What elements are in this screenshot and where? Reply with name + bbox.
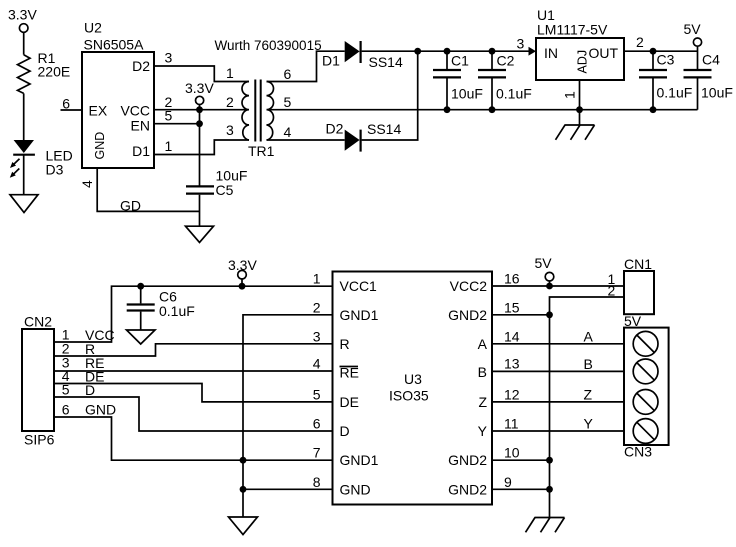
svg-text:B: B	[478, 364, 487, 380]
svg-text:1: 1	[313, 271, 321, 287]
svg-text:IN: IN	[544, 45, 558, 61]
svg-text:GD: GD	[120, 198, 141, 214]
svg-text:D1: D1	[132, 143, 150, 159]
svg-text:OUT: OUT	[589, 45, 619, 61]
svg-text:C1: C1	[451, 53, 469, 69]
svg-text:5V: 5V	[624, 313, 642, 329]
wire U2 pin6 EX stub	[61, 109, 83, 111]
transformer TR1	[215, 38, 322, 159]
svg-text:0.1uF: 0.1uF	[159, 303, 195, 319]
wire U3 pin7 GND1	[243, 459, 333, 461]
junction	[546, 486, 553, 493]
svg-text:GND: GND	[340, 481, 371, 497]
node 5V (bottom)	[535, 255, 554, 286]
svg-text:6: 6	[62, 96, 70, 112]
capacitor C6	[127, 286, 195, 330]
junction	[546, 283, 553, 290]
junction	[240, 457, 247, 464]
wire secondary return rail (TR1 pin5)	[267, 109, 698, 111]
svg-text:VCC1: VCC1	[340, 278, 378, 294]
svg-text:10: 10	[504, 445, 520, 461]
svg-text:C3: C3	[657, 52, 675, 68]
svg-text:3: 3	[517, 36, 525, 52]
connector CN2 SIP6	[22, 314, 55, 448]
svg-text:U2: U2	[84, 20, 102, 36]
svg-text:Z: Z	[584, 387, 593, 403]
ic U3 ISO35	[333, 272, 493, 505]
svg-text:GND2: GND2	[448, 481, 487, 497]
wire CN2 pin4 DE to U3 pin5	[54, 384, 333, 402]
svg-text:11: 11	[504, 416, 519, 432]
svg-text:D2: D2	[132, 58, 150, 74]
svg-text:12: 12	[504, 386, 520, 402]
wire U3 pin13 B to CN3	[492, 370, 624, 372]
svg-text:3: 3	[165, 50, 173, 66]
svg-text:A: A	[478, 336, 488, 352]
svg-text:6: 6	[284, 66, 292, 82]
svg-text:D3: D3	[46, 162, 64, 178]
junction	[240, 486, 247, 493]
junction	[576, 106, 583, 113]
wire U1 OUT to 5V	[624, 50, 698, 52]
junction	[196, 106, 203, 113]
wire D1 cathode to U1 input rail	[362, 50, 534, 52]
svg-text:Wurth 760390015: Wurth 760390015	[215, 38, 322, 53]
wire U3 pin11 Y to CN3	[492, 430, 624, 432]
wire U3 pin16 VCC2 to CN1 pin1	[492, 285, 624, 287]
wire 3.3V down to C5	[199, 105, 201, 186]
svg-text:0.1uF: 0.1uF	[496, 86, 532, 102]
capacitor C4	[684, 46, 733, 109]
svg-text:4: 4	[79, 180, 95, 188]
svg-text:D: D	[85, 382, 95, 398]
diode D2 SS14	[326, 120, 402, 151]
junction	[196, 120, 203, 127]
svg-text:A: A	[584, 329, 594, 345]
diode D1 SS14	[322, 41, 403, 70]
svg-text:2: 2	[226, 94, 234, 110]
svg-text:EN: EN	[131, 117, 150, 133]
capacitor C1	[433, 51, 483, 109]
wire	[23, 155, 25, 195]
junction	[650, 106, 657, 113]
svg-text:1: 1	[165, 138, 173, 154]
capacitor C5	[186, 168, 247, 227]
svg-text:D2: D2	[326, 120, 344, 136]
wire	[23, 93, 25, 140]
node 3.3V (bottom)	[228, 257, 257, 286]
svg-text:U3: U3	[404, 371, 422, 387]
wire U3 pin10 GND2	[492, 459, 550, 461]
svg-text:C4: C4	[702, 52, 720, 68]
svg-text:EX: EX	[89, 102, 108, 118]
junction	[546, 311, 553, 318]
wire U2 pin2 VCC to TR1 pin2	[154, 109, 249, 111]
svg-text:GND2: GND2	[448, 452, 487, 468]
svg-text:GND1: GND1	[340, 452, 379, 468]
svg-text:3: 3	[313, 328, 321, 344]
junction	[546, 457, 553, 464]
ground	[186, 226, 214, 242]
wire CN2 pin2 R to U3 pin3	[54, 344, 333, 356]
ground	[229, 517, 258, 535]
ground (hatch)	[526, 518, 565, 533]
junction	[137, 283, 144, 290]
svg-text:1: 1	[562, 91, 578, 99]
wire U3 pin2 GND1 down	[243, 315, 333, 517]
junction	[489, 48, 496, 55]
wire U3 pin14 A to CN3	[492, 343, 624, 345]
svg-text:GND: GND	[85, 402, 116, 418]
svg-text:13: 13	[504, 356, 520, 372]
svg-text:CN3: CN3	[624, 444, 652, 460]
svg-text:VCC: VCC	[120, 102, 150, 118]
wire CN2 pin3 RE to U3 pin4	[54, 370, 333, 372]
svg-text:7: 7	[313, 445, 321, 461]
resistor R1	[18, 50, 71, 93]
svg-text:3.3V: 3.3V	[185, 80, 214, 96]
ground (hatch)	[556, 110, 595, 140]
svg-text:TR1: TR1	[248, 143, 275, 159]
svg-text:Y: Y	[478, 423, 488, 439]
svg-text:SIP6: SIP6	[24, 432, 55, 448]
wire U3 pin15 GND2	[492, 314, 550, 316]
svg-text:GND2: GND2	[448, 307, 487, 323]
ground	[10, 195, 38, 213]
connector CN1	[624, 256, 654, 314]
svg-text:10uF: 10uF	[701, 85, 733, 101]
wire U2 pin3 D2 to TR1 pin1	[154, 66, 249, 82]
capacitor C3	[639, 51, 692, 109]
svg-text:SN6505A: SN6505A	[84, 36, 145, 52]
led D3	[10, 140, 73, 178]
svg-text:Z: Z	[478, 394, 487, 410]
wire TR1 pin4 to D2 anode	[267, 139, 345, 141]
wire U2 pin4 GD	[97, 168, 199, 211]
svg-text:4: 4	[284, 124, 292, 140]
svg-text:C2: C2	[497, 53, 515, 69]
svg-text:0.1uF: 0.1uF	[657, 85, 693, 101]
wire CN2 pin5 D to U3 pin6	[54, 397, 333, 431]
junction	[650, 48, 657, 55]
node 5V (top-right)	[684, 21, 702, 46]
ic U2 SN6505A	[82, 20, 154, 169]
svg-text:ISO35: ISO35	[389, 388, 429, 404]
svg-text:6: 6	[62, 402, 70, 418]
wire CN2 pin1 VCC to 3.3V rail	[54, 286, 333, 342]
svg-text:2: 2	[636, 34, 644, 50]
svg-text:SS14: SS14	[367, 121, 401, 137]
svg-text:5V: 5V	[684, 21, 702, 37]
svg-text:D: D	[340, 423, 350, 439]
svg-text:2: 2	[608, 283, 616, 299]
wire	[23, 32, 25, 54]
svg-text:5: 5	[284, 94, 292, 110]
junction	[414, 48, 421, 55]
capacitor C2	[478, 51, 532, 109]
svg-text:5: 5	[313, 386, 321, 402]
junction	[444, 106, 451, 113]
svg-text:5V: 5V	[535, 255, 553, 271]
svg-text:14: 14	[504, 328, 520, 344]
svg-text:CN1: CN1	[624, 256, 652, 272]
svg-text:B: B	[584, 356, 593, 372]
svg-text:D1: D1	[322, 53, 340, 69]
junction	[489, 106, 496, 113]
svg-text:3.3V: 3.3V	[8, 7, 37, 23]
svg-text:LM1117-5V: LM1117-5V	[537, 22, 608, 38]
wire CN2 pin6 GND to ground net	[54, 417, 243, 460]
svg-text:ADJ: ADJ	[576, 50, 590, 74]
wire U3 pin12 Z to CN3	[492, 401, 624, 403]
svg-text:SS14: SS14	[369, 54, 403, 70]
svg-text:GND: GND	[93, 132, 107, 160]
svg-text:Y: Y	[584, 416, 594, 432]
svg-text:16: 16	[504, 271, 520, 287]
svg-text:9: 9	[504, 474, 512, 490]
svg-text:1: 1	[226, 65, 234, 81]
node 3.3V (top-left)	[8, 7, 37, 33]
ground	[127, 330, 156, 344]
svg-text:15: 15	[504, 299, 520, 315]
svg-text:R: R	[340, 336, 350, 352]
wire U3 pin9 GND2	[492, 488, 550, 490]
wire U2 pin1 D1 to TR1 pin3	[154, 140, 249, 155]
svg-text:C5: C5	[216, 182, 234, 198]
svg-text:10uF: 10uF	[451, 86, 483, 102]
node 3.3V (at transformer)	[185, 80, 214, 105]
svg-text:4: 4	[313, 356, 321, 372]
wire U2 pin5 EN	[154, 123, 200, 125]
svg-text:220E: 220E	[38, 64, 71, 80]
svg-text:2: 2	[313, 299, 321, 315]
svg-text:GND1: GND1	[340, 307, 379, 323]
svg-text:VCC2: VCC2	[450, 278, 488, 294]
svg-text:8: 8	[313, 474, 321, 490]
connector CN3	[624, 313, 669, 460]
wire U3 pin8 GND	[243, 488, 333, 490]
svg-text:DE: DE	[340, 394, 359, 410]
junction	[239, 283, 246, 290]
wire D2 cathode up to rail	[362, 51, 418, 140]
regulator U1 LM1117-5V	[536, 7, 624, 80]
svg-text:3: 3	[226, 122, 234, 138]
wire TR1 pin6 to D1 anode	[267, 51, 345, 81]
wire CN1 pin2 to GND2 net	[550, 297, 625, 518]
svg-text:CN2: CN2	[24, 314, 52, 330]
svg-text:6: 6	[313, 416, 321, 432]
junction	[444, 48, 451, 55]
svg-text:5: 5	[165, 108, 173, 124]
wire U1 pin1 ADJ down	[579, 80, 581, 110]
input arrowhead U1 pin3	[529, 47, 537, 56]
